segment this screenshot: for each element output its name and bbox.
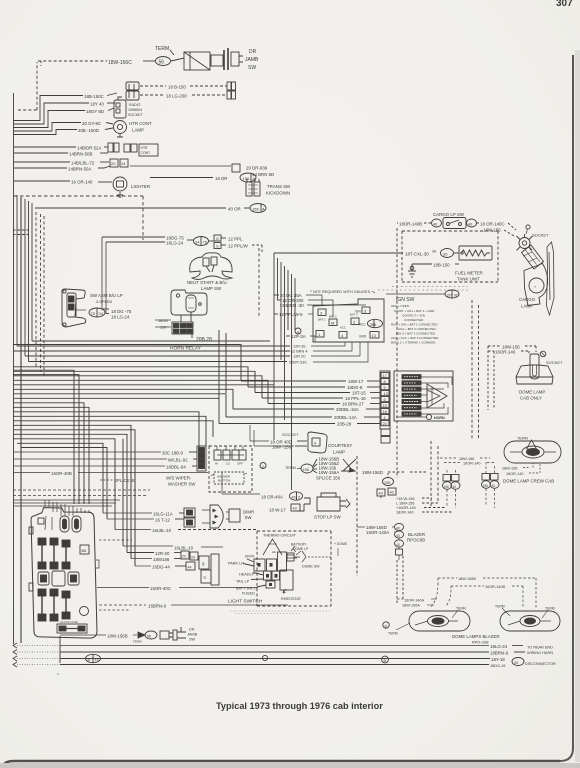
wire mesh bundle b [13, 375, 79, 504]
wire 18W-156D dashed right [362, 470, 428, 475]
svg-text:ACC + BAT 2 CONNECTED: ACC + BAT 2 CONNECTED [398, 327, 436, 331]
wire 18 DG-75 lower [102, 309, 132, 314]
wire 16 OR-140 [14, 180, 112, 185]
wire 18T-CXL-30 [274, 250, 437, 257]
svg-text:20B 28: 20B 28 [196, 337, 212, 343]
svg-text:156: 156 [243, 176, 250, 181]
wire 18 LG-24 lower [106, 314, 130, 320]
splice 156 oval [297, 464, 313, 473]
fuse block center squares [38, 571, 79, 586]
label DOME right edge [334, 542, 348, 556]
wire dome feed 20DBL-14A [226, 415, 380, 420]
svg-text:18 LG-24: 18 LG-24 [111, 315, 130, 320]
wire mesh h12 [13, 407, 89, 504]
svg-text:30: 30 [443, 252, 448, 257]
svg-text:20DBL-15A: 20DBL-15A [336, 407, 359, 412]
wire 18W-156C dashed feed [38, 61, 107, 66]
terminal pair right of 18LG-200 [227, 91, 236, 99]
lamp courtesy socket [308, 432, 327, 453]
bracket panel right [547, 242, 555, 315]
svg-text:DOME SW: DOME SW [302, 565, 320, 569]
wire 12R-2E wrap [293, 342, 345, 349]
wire 40 OR with terminal 156A [35, 204, 266, 213]
svg-text:18OR-140B: 18OR-140B [399, 222, 422, 227]
label RHEOSTAT [281, 589, 302, 601]
label TO REAR END WIRING HARN [525, 646, 556, 667]
svg-text:13: 13 [95, 658, 99, 662]
svg-text:WASHER SW: WASHER SW [168, 482, 196, 487]
svg-text:4: 4 [384, 416, 386, 420]
wire +16OR-140 dashed [396, 506, 446, 510]
wire 12 OR-300 [277, 298, 333, 317]
svg-text:SW ASM B/U LP: SW ASM B/U LP [90, 293, 123, 298]
wire mesh h18 [13, 434, 127, 552]
svg-text:START + UNJ + BAT 2 + GRD: START + UNJ + BAT 2 + GRD [394, 309, 435, 313]
svg-text:18W-156A: 18W-156A [319, 470, 340, 475]
svg-text:FUSED: FUSED [242, 592, 255, 596]
wire dashed 16OR-140B blazer feed [451, 585, 523, 589]
svg-text:A: A [262, 207, 265, 212]
wire mesh vertical drop x123 [122, 439, 124, 546]
wire 16OR-40B [13, 471, 208, 476]
svg-text:CLOCK FUSE: CLOCK FUSE [60, 620, 78, 624]
svg-text:20: 20 [111, 161, 116, 166]
ground fuel tank [408, 264, 416, 277]
wire mesh h14 [13, 416, 206, 447]
label DR JAMB SW [245, 49, 259, 71]
svg-text:18W156: 18W156 [153, 557, 170, 562]
wire 18Y-43 [13, 102, 115, 125]
svg-text:DOME LP: DOME LP [293, 547, 309, 551]
svg-text:18DBL-94: 18DBL-94 [166, 465, 186, 470]
svg-text:SOCKET: SOCKET [128, 113, 144, 117]
connector strip tail boxes [381, 429, 390, 443]
socket cargo [517, 225, 533, 251]
label TERM crew [517, 437, 537, 450]
svg-text:44: 44 [188, 566, 192, 570]
label DIMR SW [243, 510, 254, 521]
wire mesh h15 [13, 421, 213, 437]
wire dashed 18W-156 cab only [488, 345, 536, 350]
svg-text:16 BRN-27: 16 BRN-27 [342, 402, 364, 407]
stray speck [57, 673, 59, 675]
wire center bus vertical 5 [287, 270, 289, 330]
wire mesh h11 [13, 403, 84, 504]
wire wrap 12BRN-4 feed [13, 350, 290, 352]
svg-text:156: 156 [384, 481, 390, 485]
wire dashed 16OR-140 crew lower [506, 463, 540, 476]
svg-text:SW: SW [248, 65, 256, 71]
terminal box 44 [186, 562, 195, 570]
svg-text:LIGHTER: LIGHTER [131, 184, 150, 189]
svg-text:TANK UNIT: TANK UNIT [457, 277, 480, 282]
wire 18W-156 to socket [483, 228, 514, 237]
svg-text:43: 43 [514, 661, 518, 665]
svg-text:ACC + ACC + BAT 2 CONNECTED: ACC + ACC + BAT 2 CONNECTED [391, 336, 439, 340]
svg-text:14BRN-50A: 14BRN-50A [68, 167, 91, 172]
svg-text:16BRN-9: 16BRN-9 [148, 604, 167, 609]
svg-text:LO: LO [226, 462, 231, 466]
svg-text:CARGO: CARGO [519, 297, 536, 302]
fuse 4 [38, 589, 46, 621]
svg-text:18T-CXL-30: 18T-CXL-30 [405, 252, 429, 257]
svg-text:24: 24 [195, 240, 200, 245]
wire dome feed 18 PPL-16 [262, 396, 380, 401]
svg-text:DOME LAMPS BLAZER: DOME LAMPS BLAZER [452, 634, 500, 639]
svg-text:CAB ONLY: CAB ONLY [520, 396, 542, 401]
wire dome feed 16 BRN-27 [268, 402, 380, 407]
relay HORN RELAY [171, 290, 207, 322]
label NOT REQUIRED WITH GAUGES [310, 290, 375, 294]
svg-text:TERM: TERM [133, 640, 142, 644]
svg-text:16OR-140B: 16OR-140B [485, 585, 506, 589]
svg-text:24BRN -30: 24BRN -30 [282, 303, 304, 308]
svg-text:1998504: 1998504 [128, 108, 142, 112]
svg-text:PARK LP: PARK LP [228, 562, 244, 566]
svg-text:SOCKET: SOCKET [282, 432, 299, 437]
wire fuse to bottom bus [59, 636, 61, 663]
switch STOP LP SW bracket [297, 493, 350, 511]
svg-text:16OR-140: 16OR-140 [463, 462, 481, 466]
svg-text:B8: B8 [82, 549, 87, 553]
svg-text:DR: DR [249, 49, 257, 55]
svg-text:9D: 9D [454, 294, 459, 298]
svg-text:14BRN-50B: 14BRN-50B [69, 152, 92, 157]
svg-text:18W-156D: 18W-156D [362, 470, 383, 475]
lamp dome blazer 1 [409, 611, 470, 631]
svg-text:DR: DR [189, 628, 195, 632]
svg-text:HTR: HTR [141, 146, 149, 150]
svg-text:LAMP: LAMP [521, 304, 533, 309]
label TERM blazer2 left [495, 605, 510, 617]
wire center bus vertical 2 [277, 258, 279, 300]
wire center bus vertical 7 [294, 278, 296, 330]
svg-text:18W-156: 18W-156 [502, 467, 517, 471]
svg-text:16 DR: 16 DR [215, 176, 227, 181]
terminal pair 52A [108, 143, 119, 152]
lamp DOME LAMP CREW CAB [504, 441, 561, 463]
wire splice to 18W-156 [313, 466, 337, 471]
socket dome cab only [530, 354, 563, 365]
wire dome feed 18T-15 [255, 391, 380, 396]
label W/S WIPER-WASHER SW [166, 476, 196, 487]
svg-text:35A: 35A [370, 323, 377, 327]
wire 12R-2C wrap [293, 342, 360, 359]
label TERM blazer2 right [542, 607, 555, 619]
svg-text:TERM.: TERM. [155, 46, 171, 52]
ign sw terminal M [329, 319, 337, 326]
wire mesh vertical drop a [218, 330, 220, 398]
terminal oval 43 bottom [512, 658, 524, 666]
node small ring on bus [262, 655, 267, 660]
svg-text:ACC: ACC [340, 326, 346, 330]
terminal oval blazer low [395, 538, 404, 547]
fuse 1 [38, 538, 46, 569]
switch cargo lamp switch [443, 218, 466, 229]
page bottom edge line [3, 761, 560, 768]
svg-text:30C 18B-9: 30C 18B-9 [162, 451, 184, 456]
dashed stub near fuse [99, 540, 132, 610]
svg-text:G: G [216, 245, 219, 249]
node 2 circled [260, 463, 266, 469]
switch IGN SW body [313, 299, 384, 342]
svg-text:18BRN-9: 18BRN-9 [490, 651, 509, 656]
terminal oval B-13 [86, 654, 101, 662]
svg-text:SPLICE 156: SPLICE 156 [316, 476, 341, 481]
node B circled bottom [382, 656, 389, 663]
wire dome feed 18W-17 [241, 379, 380, 384]
wire 18OR-140 dashed [396, 511, 452, 515]
wire splice to 18W-156A [313, 470, 339, 475]
svg-text:NEUT START & B/U: NEUT START & B/U [187, 280, 227, 285]
svg-text:RHEOSTAT: RHEOSTAT [281, 597, 302, 601]
label TERM blazer1 left [388, 623, 410, 636]
terminal oval 40 2 stop [290, 492, 303, 500]
wire mesh h7 [13, 384, 274, 386]
wire 20B28 stub [192, 334, 212, 343]
svg-text:3-SPEED: 3-SPEED [96, 300, 113, 304]
wire 18B-150 dashed [140, 85, 227, 90]
svg-text:NOT REQUIRED WITH GAUGES: NOT REQUIRED WITH GAUGES [313, 290, 371, 294]
wire mesh h10 [13, 398, 219, 423]
svg-text:56: 56 [159, 60, 165, 66]
svg-text:40: 40 [390, 491, 394, 495]
terminal pair right of 18B-150 [227, 82, 236, 90]
fuse clock horizontal [57, 620, 87, 633]
svg-text:43: 43 [379, 492, 383, 496]
svg-text:16OR-140A: 16OR-140A [366, 530, 389, 535]
svg-text:SOCKET: SOCKET [532, 233, 549, 238]
svg-text:IGN SW: IGN SW [396, 297, 415, 303]
svg-text:16DG: 16DG [158, 319, 168, 323]
wire 18W-156B jamb bottom [60, 634, 137, 639]
wire 16 T-12 [107, 518, 184, 523]
switch DR JAMB SW (top) [184, 48, 243, 70]
wire 12 PPL [221, 237, 243, 242]
svg-text:TERM: TERM [285, 466, 296, 470]
label SPLICE 40 [100, 478, 136, 483]
horn relay connector grid [172, 322, 193, 334]
terminal 20 24 boxes [110, 159, 128, 167]
wire dashed 18W-156 crew upper [440, 457, 490, 461]
svg-text:18 OR-140C: 18 OR-140C [480, 222, 505, 227]
svg-text:18B-150: 18B-150 [433, 263, 450, 268]
terminal oval 75 24 lower [89, 308, 105, 317]
svg-text:OFF + OPEN: OFF + OPEN [391, 304, 409, 308]
svg-text:CARGO LP SW: CARGO LP SW [433, 212, 465, 217]
wire to terminal 56 [143, 60, 155, 62]
svg-text:WIRING HARN: WIRING HARN [527, 651, 553, 655]
junction block mini label FLASHER [402, 393, 427, 397]
svg-text:BLAZER: BLAZER [408, 532, 425, 537]
label TERM blazer1 right [452, 607, 466, 619]
fuse block hole [80, 607, 89, 616]
wire 18 OR-140C dashed [477, 222, 516, 231]
lamp CARGO LAMP bulb [522, 245, 548, 306]
lamp HTR CONT LAMP [114, 121, 127, 138]
area outside page bottom [0, 763, 580, 768]
wire center bus vertical 3 [280, 262, 282, 360]
wire wrap 12R-2E feed [17, 345, 290, 347]
svg-text:18W-156B: 18W-156B [107, 634, 128, 639]
svg-text:DOME LAMP: DOME LAMP [519, 390, 545, 395]
svg-text:40 OR: 40 OR [228, 207, 241, 212]
wire 20 GY-8C [13, 121, 113, 131]
svg-text:16DG-44: 16DG-44 [152, 565, 170, 570]
svg-text:18 PPL-16: 18 PPL-16 [345, 396, 366, 401]
svg-text:DOME LAMP CREW CAB: DOME LAMP CREW CAB [503, 479, 554, 484]
terminal box blazer bottom [396, 547, 403, 560]
svg-text:L 18W-156: L 18W-156 [396, 502, 414, 506]
dashed drop from PPL connectors [258, 248, 260, 317]
thermo dashed enclosure [257, 531, 331, 606]
svg-text:12 PPL/W: 12 PPL/W [228, 244, 249, 249]
svg-text:G: G [216, 237, 219, 241]
svg-text:CONTACT + IGN: CONTACT + IGN [402, 314, 425, 318]
wire mesh h19 [13, 439, 115, 530]
wire mesh h16 [13, 425, 131, 558]
svg-text:16OR-140: 16OR-140 [495, 350, 516, 355]
wiper switch dashed box [209, 446, 252, 492]
junction block mini label HI B LP [402, 381, 448, 388]
wire dashed 16OR-140 cab only [488, 350, 529, 355]
svg-text:12R 2C: 12R 2C [293, 355, 306, 359]
wire 16BRN-9 [99, 604, 288, 609]
svg-text:JAMB: JAMB [245, 57, 259, 63]
wire W/LBL-92 [13, 458, 197, 463]
svg-text:18 OR-40A: 18 OR-40A [261, 495, 283, 500]
svg-text:DISCONNECTOR: DISCONNECTOR [525, 662, 556, 666]
wire splice to 18W-156Z [313, 461, 339, 468]
svg-text:16LG-11A: 16LG-11A [153, 512, 173, 517]
merge wedge arrow [427, 384, 447, 408]
wire mesh h8 [13, 389, 233, 409]
svg-text:43: 43 [293, 507, 297, 511]
wire center bus vertical 1 [273, 253, 275, 440]
svg-text:20 DR-939: 20 DR-939 [246, 166, 268, 171]
svg-text:12 BRN 4: 12 BRN 4 [291, 350, 307, 354]
junction block dome lamp feed [394, 371, 453, 421]
svg-text:2C: 2C [182, 555, 187, 559]
wire 18OR-140B dashed [397, 222, 431, 227]
bottom bus arrowheads [13, 643, 17, 667]
switch NEUT START and B/U LAMP SW [190, 253, 232, 280]
label FUEL METER TANK UNIT [455, 271, 483, 282]
thermo circuit triangle [263, 539, 282, 555]
wire 18LG-24 [106, 241, 184, 314]
svg-text:20 GY-8C: 20 GY-8C [82, 121, 101, 126]
svg-text:18LG-24: 18LG-24 [166, 241, 184, 246]
dashed drop to oval 156 [383, 473, 394, 486]
wire dashed 16OR-140 crew upper [444, 462, 494, 466]
wire 14BRN-50B [14, 152, 108, 157]
svg-text:20: 20 [383, 422, 387, 426]
svg-text:156: 156 [303, 468, 309, 472]
label DR JAMB SW bottom [187, 628, 198, 642]
svg-text:BUTTON: BUTTON [218, 479, 230, 483]
wire mesh h17 [13, 430, 135, 566]
terminal oval 40 blazer top [395, 523, 404, 530]
terminal oval 30 [441, 249, 460, 258]
wire 18GY-8D [13, 108, 114, 128]
svg-text:12R-20: 12R-20 [155, 551, 170, 556]
svg-text:16OR-40C: 16OR-40C [150, 586, 171, 591]
ign sw terminal 3 [318, 309, 326, 316]
ign sw terminal IGN 3 [355, 307, 370, 314]
svg-text:LAMP SW: LAMP SW [201, 286, 222, 291]
svg-text:18OR-140: 18OR-140 [396, 511, 414, 515]
area outside page right [575, 50, 580, 762]
wire mesh h4 [13, 371, 255, 392]
fuse 2 [50, 538, 58, 569]
svg-text:16: 16 [383, 410, 387, 414]
wire 18W-156D blazer [357, 525, 394, 530]
wire 12BRN-4 wrap [291, 342, 352, 354]
switch DOME SW [294, 551, 331, 569]
svg-text:17: 17 [383, 374, 387, 378]
lamp dome blazer 2 [500, 611, 560, 631]
switch LIGHT SWITCH body [243, 551, 301, 590]
wire bus left vertical 4 [28, 201, 30, 362]
wire mesh vertical drop b [225, 333, 227, 393]
wire wrap 12R-2C feed [25, 355, 290, 357]
wire dashed to blazer lamps [397, 556, 403, 605]
svg-text:+ DOME: + DOME [334, 542, 348, 546]
wire bus left vertical 2 [20, 197, 22, 643]
svg-text:18DG-19: 18DG-19 [490, 664, 505, 668]
svg-text:RPOC8B: RPOC8B [407, 538, 425, 543]
wire 24BRN-30 [280, 303, 366, 308]
terminal oval 24 75 [187, 237, 214, 246]
terminal oval 40 right of cargo sw [467, 219, 477, 227]
svg-text:TERM: TERM [388, 632, 398, 636]
wire mesh h2 [13, 345, 241, 382]
node 4 circled [295, 328, 301, 334]
wire dashed 18W-156 crew lower [502, 463, 533, 471]
svg-text:12P-3A: 12P-3A [291, 334, 306, 339]
svg-text:TERM: TERM [495, 605, 505, 609]
wire 16LBL-10 second [123, 546, 223, 551]
wire dashed 18W-156B blazer feed [438, 577, 536, 581]
terminal box 43 below [377, 489, 385, 496]
fuse 5 [50, 589, 58, 621]
fuse 6 [62, 591, 70, 619]
wire mesh h20 [17, 443, 103, 513]
wire mesh h5 [13, 376, 262, 398]
wire 14B/DR 52A [14, 146, 108, 151]
headlamp sw connector column [199, 554, 219, 585]
terminal box 40 below [388, 488, 396, 495]
wire mesh h13 [13, 412, 199, 452]
svg-text:18LG-24: 18LG-24 [490, 644, 508, 649]
svg-text:6: 6 [384, 398, 386, 402]
svg-text:16OR-140: 16OR-140 [506, 472, 524, 476]
svg-text:BAT 3: BAT 3 [350, 313, 358, 317]
ign sw bat labels [318, 313, 358, 330]
fuse block outline [30, 506, 99, 640]
svg-text:18Y 43: 18Y 43 [90, 102, 104, 107]
label BATT SW LT FUSED [236, 587, 258, 596]
svg-text:RADIO: RADIO [129, 103, 141, 107]
wire 16 DR oval 156A [150, 173, 256, 182]
svg-text:18Y-18: 18Y-18 [491, 657, 505, 662]
svg-text:15: 15 [383, 404, 387, 408]
svg-text:18W-156B: 18W-156B [458, 577, 476, 581]
svg-text:18GY 8D: 18GY 8D [86, 109, 104, 114]
wire 16OR-140A label blazer [397, 599, 437, 603]
arrow terminal 56 jamb bottom [133, 631, 157, 644]
wire 14B/LBL-72 [14, 161, 109, 166]
